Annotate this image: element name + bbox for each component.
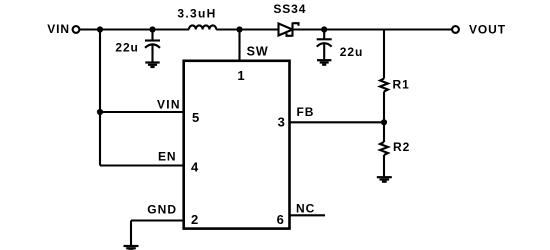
svg-text:3.3uH: 3.3uH — [177, 7, 216, 21]
svg-text:1: 1 — [237, 68, 244, 83]
svg-text:22u: 22u — [340, 45, 363, 59]
svg-text:2: 2 — [191, 212, 198, 227]
svg-text:EN: EN — [158, 150, 176, 164]
svg-text:SW: SW — [247, 45, 269, 59]
svg-text:R1: R1 — [393, 78, 410, 92]
svg-text:VOUT: VOUT — [469, 23, 506, 37]
svg-text:4: 4 — [191, 160, 199, 175]
svg-text:VIN: VIN — [157, 98, 181, 112]
svg-text:R2: R2 — [393, 140, 410, 154]
svg-text:SS34: SS34 — [273, 2, 306, 16]
svg-text:3: 3 — [278, 115, 285, 130]
svg-text:5: 5 — [192, 110, 199, 125]
svg-text:6: 6 — [277, 212, 284, 227]
svg-text:VIN: VIN — [47, 22, 70, 36]
svg-text:22u: 22u — [115, 41, 138, 55]
svg-text:FB: FB — [297, 105, 315, 119]
svg-text:GND: GND — [147, 203, 177, 217]
svg-text:NC: NC — [296, 201, 315, 215]
